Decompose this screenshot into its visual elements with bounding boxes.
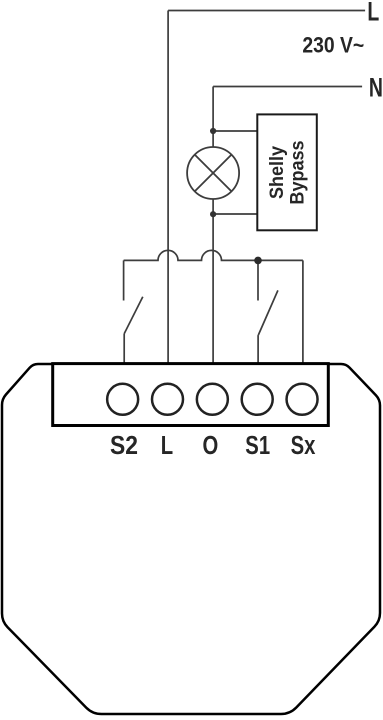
svg-text:S2: S2 — [110, 432, 138, 461]
wire O vertical lamp to terminal — [212, 199, 214, 364]
terminal L — [152, 384, 183, 415]
terminal S1 — [242, 384, 273, 415]
svg-text:O: O — [203, 431, 219, 460]
svg-text:Shelly: Shelly — [266, 145, 288, 199]
svg-text:N: N — [369, 72, 383, 102]
node junction dot on Sx bus — [254, 257, 262, 265]
wire Sx drop — [302, 260, 304, 363]
wire right switch bottom — [257, 335, 259, 363]
svg-text:Sx: Sx — [291, 431, 316, 460]
terminal O — [197, 384, 228, 415]
svg-text:L: L — [367, 0, 379, 26]
wire left switch bottom — [123, 334, 125, 364]
wire L top horizontal — [168, 10, 365, 12]
wire bus left drop — [123, 260, 125, 300]
svg-text:L: L — [161, 431, 173, 460]
wire Sx bus with crossover hops — [124, 250, 303, 260]
switch SW2 blade — [258, 290, 278, 335]
wire to bypass top — [213, 130, 257, 132]
terminal block — [53, 364, 329, 426]
wire N top horizontal — [213, 86, 362, 88]
lamp E1 — [187, 147, 239, 199]
svg-text:230 V~: 230 V~ — [302, 33, 364, 58]
node junction dot top of lamp — [210, 128, 216, 134]
terminal Sx — [287, 384, 318, 415]
bypass module U1 — [257, 114, 317, 230]
wire to bypass bottom — [213, 213, 257, 215]
wire S1 drop — [257, 260, 259, 300]
terminal S2 — [107, 384, 138, 415]
switch SW1 blade — [124, 297, 143, 334]
wire L vertical — [167, 11, 169, 364]
wire N vertical to lamp — [212, 87, 214, 148]
svg-text:Bypass: Bypass — [286, 140, 308, 204]
node junction dot bottom of lamp — [210, 211, 216, 217]
svg-text:S1: S1 — [245, 431, 270, 460]
device body octagon outline — [2, 364, 380, 714]
label Shelly Bypass — [266, 140, 308, 204]
